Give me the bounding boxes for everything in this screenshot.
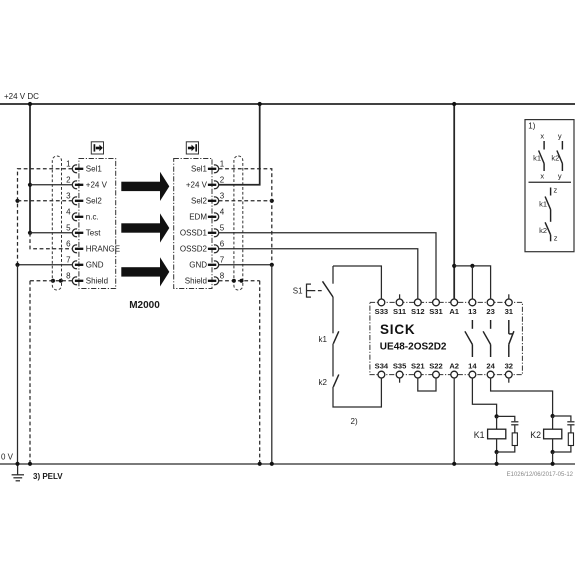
jumper S21-S22 bbox=[418, 378, 436, 391]
svg-text:3: 3 bbox=[220, 192, 225, 201]
left pin 5 Test bbox=[66, 224, 101, 238]
terminal 32 bbox=[505, 362, 513, 383]
contact k1 bbox=[319, 331, 339, 344]
svg-text:Sel1: Sel1 bbox=[191, 165, 208, 174]
wire Sel2 right dashed bbox=[219, 200, 272, 202]
svg-text:x: x bbox=[540, 132, 544, 141]
svg-text:M2000: M2000 bbox=[129, 300, 160, 311]
terminal A2 bbox=[449, 362, 459, 378]
svg-text:8: 8 bbox=[66, 272, 71, 281]
svg-text:+24 V: +24 V bbox=[86, 181, 108, 190]
svg-text:k2: k2 bbox=[539, 226, 547, 235]
legend contact k1 bbox=[533, 141, 544, 171]
cable shield capsule right bbox=[234, 156, 243, 290]
wire A2 to 0V bbox=[452, 378, 456, 466]
svg-text:1: 1 bbox=[66, 160, 71, 169]
connector icon left bbox=[91, 142, 103, 154]
legend contact k2 bbox=[551, 141, 562, 171]
svg-text:SICK: SICK bbox=[380, 322, 415, 337]
contact k2 bbox=[319, 375, 339, 388]
svg-text:k2: k2 bbox=[319, 378, 328, 387]
svg-text:6: 6 bbox=[220, 240, 225, 249]
svg-text:1): 1) bbox=[528, 122, 535, 131]
relay UE48-2OS2D2 box bbox=[370, 302, 523, 374]
wire branch to 13 23 bbox=[454, 264, 490, 299]
svg-text:HRANGE: HRANGE bbox=[86, 245, 120, 254]
legend box 1) bbox=[525, 120, 574, 252]
svg-text:7: 7 bbox=[220, 256, 225, 265]
svg-text:23: 23 bbox=[486, 307, 494, 316]
svg-text:k2: k2 bbox=[551, 153, 559, 162]
right pin 6 OSSD2 bbox=[180, 240, 225, 254]
legend series contact k1 bbox=[539, 188, 551, 222]
right pin 2 +24V bbox=[186, 176, 225, 190]
terminal 24 bbox=[486, 362, 495, 378]
svg-text:+24 V: +24 V bbox=[186, 181, 208, 190]
right pin 3 Sel2 bbox=[191, 192, 225, 206]
relay coil K1 bbox=[474, 414, 506, 466]
svg-text:4: 4 bbox=[220, 208, 225, 217]
right pin 1 Sel1 bbox=[191, 160, 225, 174]
svg-text:z: z bbox=[554, 234, 558, 243]
svg-text:3) PELV: 3) PELV bbox=[33, 472, 63, 481]
cable shield capsule left bbox=[52, 156, 61, 290]
terminal 14 bbox=[468, 362, 477, 378]
left pin 3 Sel2 bbox=[66, 192, 102, 206]
right pin 4 EDM bbox=[189, 208, 225, 222]
svg-text:S31: S31 bbox=[429, 307, 443, 316]
svg-text:1: 1 bbox=[220, 160, 225, 169]
RC suppressor K1 bbox=[497, 416, 519, 452]
svg-text:z: z bbox=[554, 186, 558, 195]
left pin 8 Shield bbox=[66, 272, 108, 286]
left pin 2 +24V bbox=[66, 176, 107, 190]
0 V rail bbox=[0, 453, 575, 465]
wire to pin2 +24V left bbox=[30, 184, 72, 186]
right pin 5 OSSD1 bbox=[180, 224, 225, 238]
svg-text:S35: S35 bbox=[393, 362, 407, 371]
internal contact 23-24 bbox=[483, 320, 491, 357]
wire S1 to S33 bbox=[333, 266, 381, 299]
wire to pin5 Test bbox=[30, 232, 72, 234]
svg-text:5: 5 bbox=[66, 224, 71, 233]
svg-text:S11: S11 bbox=[393, 307, 407, 316]
wire A1 from rail bbox=[452, 102, 456, 299]
svg-text:24: 24 bbox=[486, 362, 495, 371]
svg-text:Sel1: Sel1 bbox=[86, 165, 103, 174]
svg-text:y: y bbox=[558, 132, 562, 141]
left pin 1 Sel1 bbox=[66, 160, 102, 174]
left pin 4 n.c. bbox=[66, 208, 99, 222]
svg-text:Sel2: Sel2 bbox=[191, 197, 208, 206]
wire shield left bbox=[28, 279, 72, 466]
terminal A1 bbox=[449, 299, 459, 316]
svg-text:S22: S22 bbox=[429, 362, 443, 371]
terminal S31 bbox=[429, 299, 443, 316]
terminal S11 bbox=[393, 294, 407, 316]
svg-text:2: 2 bbox=[66, 176, 71, 185]
wire Sel1 right dashed bbox=[219, 169, 274, 265]
wire GND left bbox=[15, 263, 72, 466]
internal contact 31-32 (NC) bbox=[509, 320, 514, 357]
svg-text:32: 32 bbox=[505, 362, 513, 371]
svg-text:2: 2 bbox=[220, 176, 225, 185]
svg-text:0 V: 0 V bbox=[1, 453, 14, 462]
legend series contact k2 bbox=[539, 222, 551, 241]
svg-text:Shield: Shield bbox=[185, 277, 207, 286]
svg-text:GND: GND bbox=[86, 261, 104, 270]
svg-text:8: 8 bbox=[220, 272, 225, 281]
terminal S22 bbox=[429, 362, 443, 378]
svg-text:13: 13 bbox=[468, 307, 476, 316]
+24 V DC rail bbox=[0, 92, 575, 104]
svg-text:S33: S33 bbox=[375, 307, 389, 316]
svg-text:S12: S12 bbox=[411, 307, 425, 316]
right pin 7 GND bbox=[189, 256, 225, 270]
svg-text:Test: Test bbox=[86, 229, 101, 238]
svg-text:x: x bbox=[540, 172, 544, 181]
left pin 7 GND bbox=[66, 256, 104, 270]
svg-text:k1: k1 bbox=[539, 200, 547, 209]
wire +24V right bbox=[219, 102, 262, 185]
terminal 23 bbox=[486, 299, 494, 316]
wire 24 to K2 bbox=[491, 378, 553, 416]
wire dashed HRANGE link bbox=[30, 233, 72, 249]
svg-text:14: 14 bbox=[468, 362, 477, 371]
svg-text:OSSD1: OSSD1 bbox=[180, 229, 208, 238]
svg-text:S21: S21 bbox=[411, 362, 425, 371]
wire dashed Sel2 left bbox=[18, 200, 73, 202]
wire GND right bbox=[219, 263, 274, 466]
svg-text:OSSD2: OSSD2 bbox=[180, 245, 208, 254]
terminal S34 bbox=[375, 362, 389, 378]
svg-text:3: 3 bbox=[66, 192, 71, 201]
wire dashed Sel1 left bbox=[15, 169, 72, 265]
terminal S12 bbox=[411, 299, 425, 316]
terminal S35 bbox=[393, 362, 407, 383]
left pin 6 HRANGE bbox=[66, 240, 120, 254]
svg-text:A1: A1 bbox=[449, 307, 459, 316]
wire S1 to k1 bbox=[332, 297, 334, 333]
svg-text:31: 31 bbox=[505, 307, 514, 316]
wire 14 to K1 bbox=[472, 378, 496, 416]
big arrow 3 bbox=[121, 257, 169, 286]
svg-text:6: 6 bbox=[66, 240, 71, 249]
ground bbox=[12, 464, 24, 481]
svg-text:2): 2) bbox=[351, 417, 358, 426]
terminal S33 bbox=[375, 299, 389, 316]
svg-text:K2: K2 bbox=[530, 430, 541, 440]
wire shield right dashed bbox=[219, 279, 262, 466]
connector icon right bbox=[186, 142, 198, 154]
wire +24V feed left vertical bbox=[28, 102, 32, 235]
wire OSSD2 to S12 bbox=[219, 249, 418, 299]
svg-text:A2: A2 bbox=[449, 362, 459, 371]
svg-text:E1026/12/06/2017-05-12: E1026/12/06/2017-05-12 bbox=[507, 472, 574, 478]
svg-text:5: 5 bbox=[220, 224, 225, 233]
svg-text:+24 V DC: +24 V DC bbox=[4, 92, 39, 101]
svg-text:Sel2: Sel2 bbox=[86, 197, 103, 206]
connector block right (UE48 side) bbox=[174, 159, 212, 289]
switch S1 (reset) bbox=[293, 266, 333, 298]
terminal 31 bbox=[505, 294, 514, 316]
svg-text:k1: k1 bbox=[319, 335, 328, 344]
svg-text:K1: K1 bbox=[474, 430, 485, 440]
svg-text:GND: GND bbox=[189, 261, 207, 270]
big arrow 1 bbox=[121, 172, 169, 201]
svg-text:S34: S34 bbox=[375, 362, 389, 371]
right pin 8 Shield bbox=[185, 272, 225, 286]
terminal 13 bbox=[468, 299, 476, 316]
wire k2 to S34 bbox=[333, 378, 381, 407]
big arrow 2 bbox=[121, 213, 169, 242]
legend divider bbox=[529, 181, 572, 183]
svg-text:k1: k1 bbox=[533, 153, 541, 162]
relay coil K2 bbox=[530, 414, 562, 466]
svg-text:Shield: Shield bbox=[86, 277, 108, 286]
svg-text:4: 4 bbox=[66, 208, 71, 217]
RC suppressor K2 bbox=[553, 416, 575, 452]
terminal S21 bbox=[411, 362, 425, 378]
wire k1 to k2 bbox=[332, 344, 334, 377]
svg-text:y: y bbox=[558, 172, 562, 181]
svg-text:EDM: EDM bbox=[189, 213, 207, 222]
svg-text:UE48-2OS2D2: UE48-2OS2D2 bbox=[380, 342, 447, 353]
svg-text:n.c.: n.c. bbox=[86, 213, 99, 222]
internal contact 13-14 bbox=[465, 320, 473, 357]
svg-text:7: 7 bbox=[66, 256, 71, 265]
wire OSSD1 to S31 bbox=[219, 233, 436, 299]
connector block left (M2000 plug) bbox=[79, 159, 116, 289]
svg-text:S1: S1 bbox=[293, 287, 303, 296]
